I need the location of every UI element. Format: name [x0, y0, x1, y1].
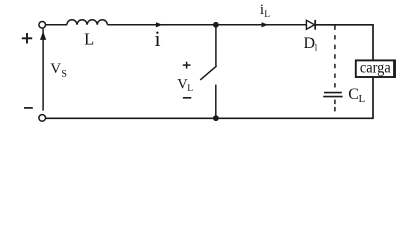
- svg-text:i: i: [155, 26, 161, 51]
- svg-text:carga: carga: [360, 59, 391, 76]
- svg-text:D: D: [304, 35, 316, 52]
- svg-text:L: L: [359, 93, 366, 105]
- svg-text:S: S: [61, 69, 67, 80]
- svg-text:C: C: [348, 86, 359, 103]
- svg-text:V: V: [50, 61, 61, 77]
- svg-text:L: L: [84, 29, 94, 48]
- svg-text:L: L: [187, 84, 193, 94]
- svg-text:L: L: [264, 10, 270, 20]
